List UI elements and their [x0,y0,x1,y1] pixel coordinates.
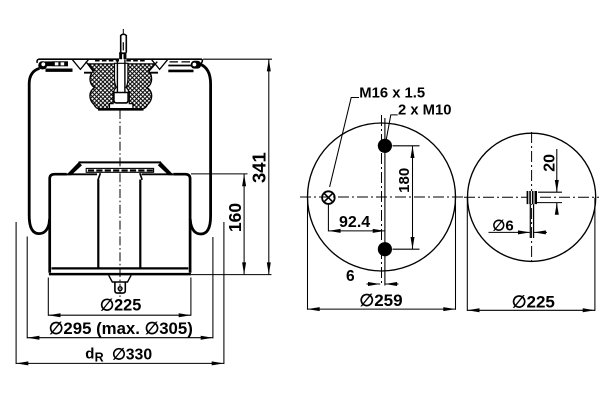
dia295 dimension line [27,337,213,339]
arrows 20 [555,180,559,192]
20 dimension lines [556,149,558,214]
dia259 dimension line [308,308,456,310]
bottom view outline circle [467,133,595,261]
arrows dia295 [27,336,39,340]
vertical centerline [381,115,383,286]
rubber bumper (crosshatched) [88,64,156,109]
piston top plate line [79,161,162,163]
dim text 20 (rotated) [542,154,559,172]
bolt through bumper [117,60,125,93]
stud thread line [122,42,124,50]
M10 bolt top [378,139,392,153]
horizontal centerline [464,196,599,198]
top plate serrated row over bumper [95,60,147,62]
top plate left end curl [37,59,38,63]
dia225 dimension line [467,309,595,311]
piston inner tube left [97,180,99,269]
arrows dia225 right view [467,308,479,312]
dia225 dimension line [48,314,191,316]
92.4 dimension line [328,230,385,232]
svg-text:160: 160 [225,203,245,232]
top view outline circle [308,123,456,271]
tube flare left [98,173,100,180]
dia330 dimension line [16,362,224,364]
svg-text:6: 6 [346,268,355,285]
bolt head in bumper [114,93,128,103]
bumper bottom thick edge [98,108,144,111]
center tick above stud [122,29,124,33]
plate V crimp left [73,60,89,70]
piston top wedge right [158,162,174,175]
160 dimension line [243,174,245,275]
svg-text:∅225: ∅225 [512,293,555,312]
arrows dia225 [48,313,60,317]
dia6 dimension line [489,231,548,233]
svg-text:M16 x 1.5: M16 x 1.5 [359,85,425,101]
6 offset dimension [367,283,399,285]
top stud M10 [121,34,127,52]
dim text 341 (rotated) [249,152,270,183]
dia259 ext lines [308,198,456,310]
svg-text:R: R [95,351,104,365]
arrows 92.4 [328,229,340,233]
arrows 160 [242,174,246,186]
piston inner tube right [139,180,141,269]
arrows dia259 [308,307,320,311]
ext line piston top to 160 [191,173,248,175]
svg-text:341: 341 [249,152,270,183]
svg-text:∅330: ∅330 [112,346,152,363]
arrows 6 [368,282,380,286]
ext lines dia225 [48,278,191,316]
leader 2xM10 [386,115,398,140]
bead right [191,61,201,69]
piston outer bottom [49,273,191,276]
arrows dia6 [518,230,530,234]
piston top wedge left [66,162,82,175]
bottom boss [115,282,125,293]
bolt axis line [384,118,386,286]
M10 bolt bottom [378,242,392,256]
180 dimension line [412,146,414,249]
stud washer [119,52,126,59]
arrows 180 [411,146,415,158]
180 ext lines [393,146,420,249]
dia225 ext lines [467,198,595,311]
plate second line right [168,65,192,67]
svg-text:d: d [85,345,94,362]
bumper center channel (white) [110,63,133,108]
piston left wall [50,174,67,273]
ext line piston bottom [191,274,272,276]
arrows dia330 [16,361,28,365]
svg-text:∅295 (max. ∅305): ∅295 (max. ∅305) [49,319,193,338]
svg-text:180: 180 [396,168,413,193]
boss dot [118,286,123,291]
top plate right end curl [201,59,203,64]
bumper slant corner lines [86,62,158,72]
M16 air fitting symbol [322,191,335,204]
centerline (vertical dash-dot, left view) [119,110,121,302]
bellows outer wall right [190,64,210,234]
ext line top plate to 341 [203,58,272,60]
svg-text:92.4: 92.4 [339,214,370,231]
plate window band with two holes [53,61,69,66]
plate bottom thick band [46,68,73,71]
ext lines dia295 [27,237,213,339]
svg-text:∅259: ∅259 [359,291,402,310]
svg-text:20: 20 [542,154,559,172]
dim text 180 (rotated) [396,168,413,193]
341 dimension line [268,59,270,274]
serration dashes [88,169,153,171]
center boss (threaded) [527,191,537,204]
piston inner bottom [52,267,189,269]
tube flare right [140,173,142,180]
plate bottom thick band right [168,70,193,73]
piston shelf lines [67,173,174,175]
drain stem dia6 [530,204,533,238]
bead left [38,61,47,69]
horizontal centerline [300,196,463,198]
leader M16 [330,98,359,188]
plate under-bumper edges [84,72,158,74]
svg-text:∅6: ∅6 [492,217,513,234]
bottom fitting recess [109,275,131,282]
ext lines dia330 [16,222,224,364]
dim text 160 (rotated) [225,203,245,232]
vertical centerline [531,132,533,262]
top plate top line [39,58,203,60]
arrows 341 [267,59,271,71]
svg-text:2 x M10: 2 x M10 [398,103,451,119]
bellows outer wall left [29,68,49,233]
plate V crimp right [152,60,168,70]
plate hidden dashes right [170,61,191,63]
plate band left (bead to window band) [45,61,53,66]
svg-text:∅225: ∅225 [100,297,141,315]
serration band [86,168,153,172]
20 ext lines [536,192,562,202]
piston right wall [173,174,190,273]
92.4 ext line from M16 [327,205,329,232]
